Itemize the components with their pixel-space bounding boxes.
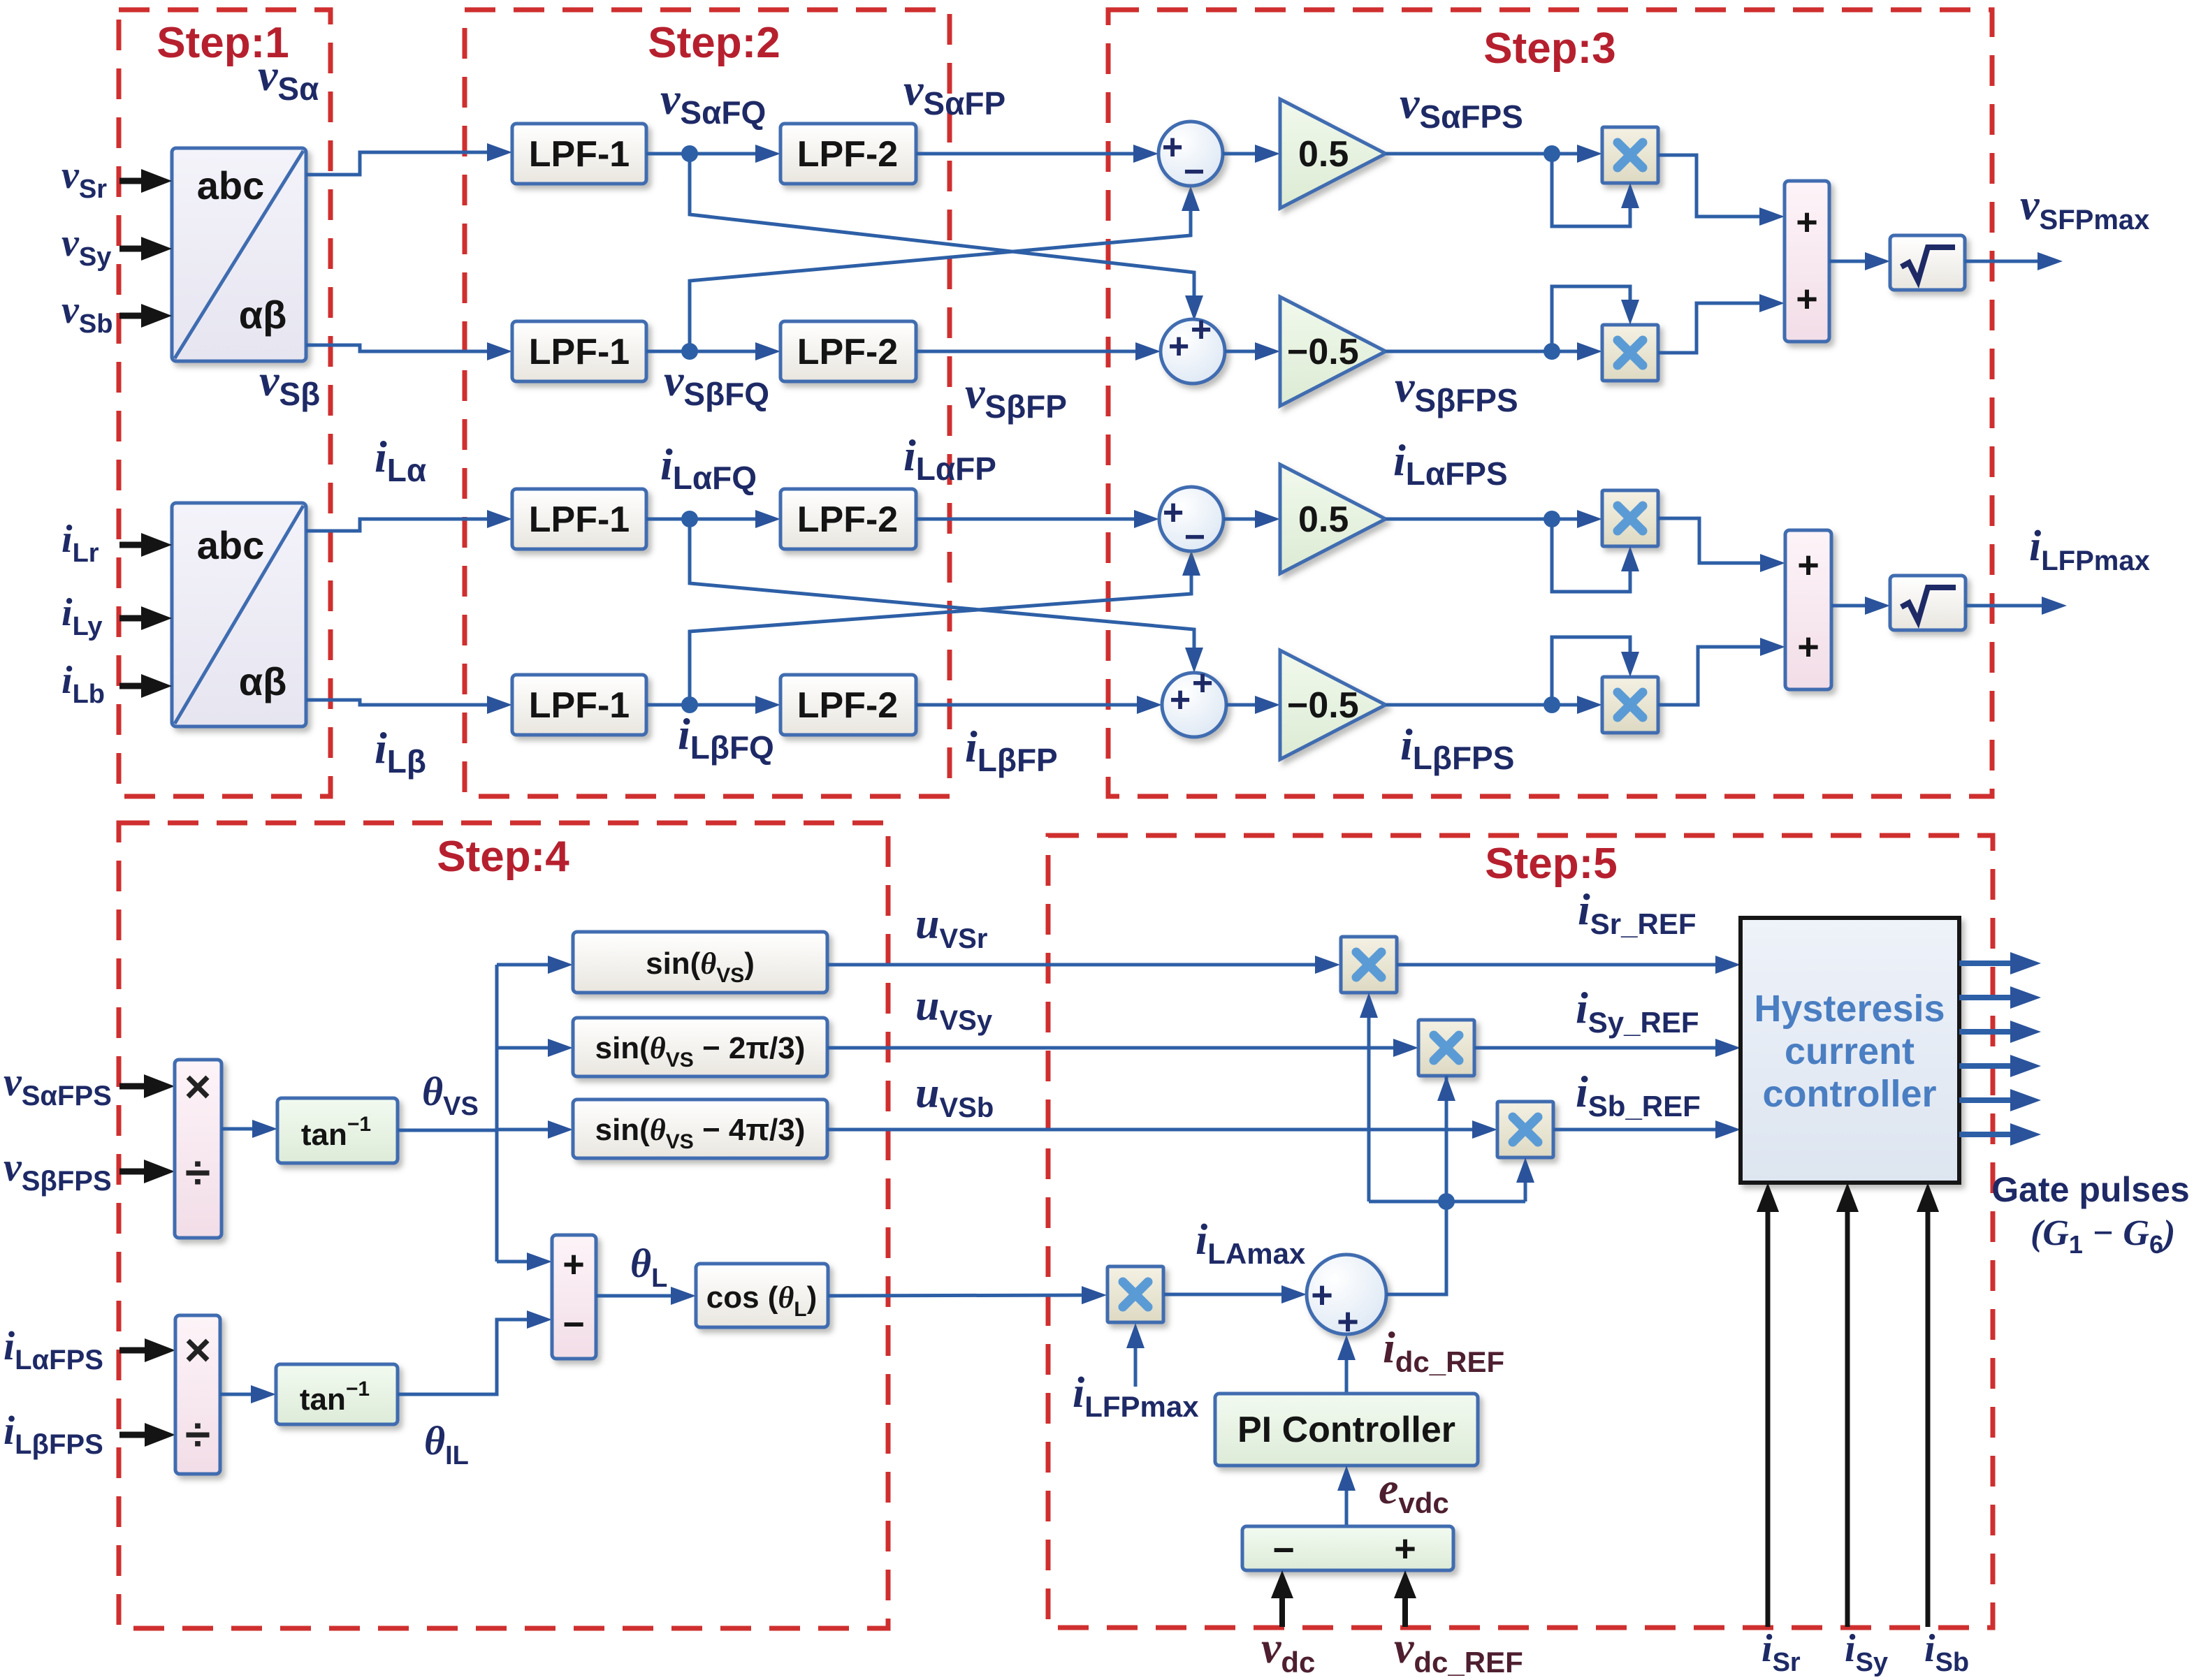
label iLbetaFQ [678, 709, 774, 766]
svg-text:(G1 − G6): (G1 − G6) [2031, 1213, 2175, 1259]
svg-text:iLFPmax: iLFPmax [2029, 523, 2150, 576]
input arrow iLalphaFPS [119, 1338, 175, 1362]
gain triangle &#8722;0.5 (vbeta) [1280, 297, 1386, 406]
summing circle (ibeta) [1162, 663, 1226, 737]
wire gain to multiplier (ibeta) [1386, 696, 1602, 714]
svg-text:LPF-2: LPF-2 [797, 134, 898, 175]
wire LPF-2 to summing circle (ibeta) [916, 696, 1162, 714]
label iLbeta [375, 723, 426, 780]
svg-text:iSy: iSy [1845, 1627, 1888, 1677]
svg-text:LPF-2: LPF-2 [797, 685, 898, 726]
label thetaL [630, 1241, 667, 1293]
label iLAmax [1196, 1216, 1306, 1270]
svg-text:abc: abc [197, 163, 265, 207]
svg-text:+: + [1163, 492, 1184, 533]
wire subtractor to cos [596, 1287, 696, 1305]
label iLalphaFQ [660, 439, 757, 496]
input label vSr [61, 154, 107, 204]
svg-text:iSb_REF: iSb_REF [1576, 1067, 1701, 1123]
arctan block (current) [276, 1364, 398, 1424]
svg-text:vSβFPS: vSβFPS [3, 1144, 112, 1197]
multiplier square (iSb_REF) [1497, 1102, 1553, 1157]
stub arrow iLFPmax into multiplier [1126, 1323, 1145, 1387]
cross wire vSalphaFQ to beta summing circle [690, 154, 1203, 321]
gate pulse output arrow 5 [1959, 1089, 2041, 1111]
label vSFPmax [2020, 182, 2149, 235]
input arrow vSbetaFPS [119, 1160, 175, 1183]
junction dot (ialpha) [681, 511, 698, 527]
svg-text:θIL: θIL [424, 1418, 469, 1470]
dc reference summing circle [1307, 1255, 1386, 1343]
wire multiplier to adder (vbeta) [1658, 294, 1785, 353]
step 1 label [157, 19, 289, 67]
label iSy_REF [1576, 983, 1699, 1039]
block LPF-2 (ialpha) [780, 489, 916, 549]
theta bus vertical wire [495, 965, 499, 1262]
input label vSy [61, 221, 111, 272]
wire iLbeta to LPF-1 [306, 696, 512, 714]
squaring loop wire (ibeta) [1552, 637, 1639, 705]
svg-text:LPF-2: LPF-2 [797, 499, 898, 540]
wire summing circle to gain (ibeta) [1226, 696, 1280, 714]
svg-text:iSr: iSr [1761, 1627, 1801, 1677]
label vSbetaFPS input [3, 1144, 112, 1197]
step 1 dashed boundary box [119, 10, 330, 796]
wire adder to sqrt (current) [1831, 597, 1890, 615]
label iLalphaFPS [1393, 435, 1508, 492]
multiplier square (ibeta) [1602, 677, 1658, 733]
hysteresis current controller block [1741, 918, 1959, 1183]
svg-text:uVSr: uVSr [915, 900, 987, 954]
wire multiplier to adder (ibeta) [1658, 638, 1785, 705]
wire thetaIL to subtractor minus [398, 1310, 552, 1394]
gate pulse output arrow 4 [1959, 1055, 2041, 1077]
feedback line iSb [1917, 1183, 1939, 1627]
squaring loop wire (vbeta) [1552, 286, 1639, 353]
svg-text:−: − [1272, 1529, 1295, 1571]
label iSr [1761, 1627, 1801, 1677]
svg-text:iLαFPS: iLαFPS [1393, 435, 1508, 492]
svg-text:LPF-1: LPF-1 [529, 685, 630, 726]
input arrow vSy [119, 237, 172, 261]
svg-text:iSr_REF: iSr_REF [1578, 884, 1697, 940]
input arrow iLy [119, 606, 172, 630]
svg-text:0.5: 0.5 [1298, 134, 1349, 175]
svg-text:θL: θL [630, 1241, 667, 1293]
adder block (current) [1785, 530, 1831, 689]
svg-text:iLαFP: iLαFP [903, 430, 996, 487]
svg-text:vdc_REF: vdc_REF [1394, 1623, 1523, 1677]
svg-text:current: current [1785, 1030, 1915, 1072]
input arrow iLr [119, 533, 172, 557]
multiplier feed bus [1369, 1200, 1525, 1204]
wire uVSr to multiplier [827, 956, 1340, 974]
label iLbetaFPS [1400, 720, 1514, 776]
junction dot (ibeta) [681, 696, 698, 713]
wire sum circle to multiplier bus [1386, 1076, 1446, 1294]
svg-text:vSαFP: vSαFP [903, 65, 1005, 122]
svg-text:+: + [1796, 278, 1818, 320]
feedback line iSr [1757, 1183, 1779, 1627]
block LPF-2 (ibeta) [780, 675, 916, 735]
svg-text:vSβFP: vSβFP [965, 368, 1067, 425]
svg-text:−: − [1184, 517, 1205, 557]
label vSbetaFQ [664, 356, 769, 412]
svg-text:vSαFPS: vSαFPS [1400, 78, 1523, 135]
input label iLb [61, 659, 105, 709]
label uVSb [915, 1069, 994, 1123]
divide block (voltage) [175, 1060, 221, 1238]
wire uVSb to multiplier [827, 1120, 1497, 1139]
wire multiplier to dc sum circle [1164, 1285, 1307, 1303]
wire summing circle to gain (ialpha) [1223, 510, 1280, 528]
svg-text:iSy_REF: iSy_REF [1576, 983, 1699, 1039]
svg-text:+: + [562, 1243, 585, 1285]
junction dot (valpha) [681, 145, 698, 162]
svg-text:÷: ÷ [185, 1146, 210, 1198]
svg-text:αβ: αβ [239, 659, 287, 703]
label uVSy [915, 982, 993, 1036]
svg-text:+: + [1797, 544, 1819, 586]
wire vSbeta to LPF-1 [306, 342, 512, 360]
wire branch to angle subtractor plus [497, 1252, 552, 1271]
svg-text:+: + [1796, 201, 1818, 243]
cross wire vSbetaFQ to alpha summing circle [690, 186, 1200, 351]
label iLbetaFP [965, 722, 1058, 778]
multiplier square (iSr_REF) [1341, 937, 1397, 993]
wire branch to sin2 [497, 1039, 573, 1057]
wire iLalpha to LPF-1 [306, 510, 512, 531]
wire iSb_REF to hysteresis [1553, 1120, 1741, 1139]
svg-text:LPF-1: LPF-1 [529, 332, 630, 372]
label iSb [1924, 1627, 1969, 1677]
gain triangle 0.5 (ialpha) [1280, 465, 1386, 574]
step 4 label [437, 833, 569, 881]
svg-text:θVS: θVS [422, 1069, 479, 1121]
junction dot after gain (valpha) [1543, 145, 1560, 162]
wire LPF-2 to summing circle (valpha) [916, 145, 1158, 163]
svg-text:Step:4: Step:4 [437, 833, 569, 881]
svg-text:+: + [1394, 1528, 1416, 1570]
svg-text:−: − [1184, 152, 1205, 192]
svg-text:LPF-2: LPF-2 [797, 332, 898, 372]
block sin(thetaVS-4pi/3) [573, 1100, 827, 1158]
svg-text:iLr: iLr [61, 518, 99, 568]
wire LPF-1 to LPF-2 (ialpha) [646, 510, 780, 528]
svg-text:LPF-1: LPF-1 [529, 134, 630, 175]
svg-text:iLβFPS: iLβFPS [3, 1408, 103, 1460]
cross wire iLbetaFQ to alpha summing circle [690, 550, 1200, 705]
wire LPF-1 to LPF-2 (valpha) [646, 145, 780, 163]
divide block (current) [175, 1315, 220, 1474]
svg-text:×: × [184, 1060, 212, 1112]
svg-text:iSb: iSb [1924, 1627, 1969, 1677]
step 5 dashed boundary box [1048, 835, 1993, 1628]
label vSalphaFP [903, 65, 1005, 122]
label iLbetaFPS input [3, 1408, 103, 1460]
adder block (voltage) [1785, 181, 1829, 342]
block abc-to-alphabeta (current) [172, 503, 306, 726]
svg-text:+: + [1337, 1301, 1359, 1343]
svg-text:0.5: 0.5 [1298, 499, 1349, 540]
svg-text:vSb: vSb [61, 288, 112, 339]
svg-text:αβ: αβ [239, 293, 287, 337]
svg-text:Step:5: Step:5 [1485, 840, 1617, 888]
feed wire to iSr multiplier [1360, 993, 1378, 1201]
svg-text:LPF-1: LPF-1 [529, 499, 630, 540]
svg-text:÷: ÷ [185, 1408, 210, 1460]
sqrt block (current) [1890, 576, 1966, 630]
svg-text:+: + [1191, 309, 1212, 350]
svg-text:PI Controller: PI Controller [1237, 1410, 1455, 1450]
svg-text:+: + [1192, 663, 1213, 703]
multiplier square (iLAmax) [1107, 1266, 1163, 1322]
svg-text:+: + [1170, 680, 1191, 720]
label iLFPmax input [1073, 1369, 1199, 1423]
block sin(thetaVS) [573, 932, 827, 993]
wire summing circle to gain (valpha) [1223, 145, 1280, 163]
svg-text:iLβFPS: iLβFPS [1400, 720, 1514, 776]
label idc_REF [1383, 1322, 1504, 1378]
svg-text:−0.5: −0.5 [1287, 332, 1359, 372]
label iLalpha [375, 432, 426, 488]
svg-text:abc: abc [197, 523, 265, 567]
label thetaVS [422, 1069, 479, 1121]
svg-text:−: − [562, 1303, 585, 1345]
feedback line iSy [1836, 1183, 1859, 1627]
svg-text:iLβFP: iLβFP [965, 722, 1058, 778]
label G1-G6 [2031, 1213, 2175, 1259]
input label iLr [61, 518, 99, 568]
wire gain to multiplier (ialpha) [1386, 510, 1602, 528]
wire arctan to theta bus [398, 1129, 497, 1132]
label iLalphaFP [903, 430, 996, 487]
input label vSb [61, 288, 112, 339]
block cos(thetaL) [696, 1264, 828, 1327]
sqrt block (voltage) [1890, 235, 1965, 290]
feed wire to iSb multiplier [1516, 1157, 1534, 1201]
multiplier square (vbeta) [1602, 325, 1658, 381]
label iLalphaFPS input [3, 1323, 103, 1375]
gate pulse output arrow 2 [1959, 986, 2041, 1009]
label thetaIL [424, 1418, 469, 1470]
wire adder to sqrt (voltage) [1829, 252, 1890, 270]
svg-text:Step:3: Step:3 [1483, 24, 1615, 73]
input arrow vdc [1271, 1570, 1293, 1627]
svg-text:+: + [1168, 326, 1189, 367]
step 3 label [1483, 24, 1615, 73]
svg-text:iLAmax: iLAmax [1196, 1216, 1306, 1270]
svg-text:iLαFQ: iLαFQ [660, 439, 757, 496]
svg-text:iLβFQ: iLβFQ [678, 709, 774, 766]
step 2 label [648, 19, 780, 67]
junction dot (vbeta) [681, 343, 698, 360]
svg-text:vSαFQ: vSαFQ [660, 74, 766, 131]
svg-text:vSFPmax: vSFPmax [2020, 182, 2149, 235]
step 3 dashed boundary box [1108, 10, 1992, 796]
wire summing circle to gain (vbeta) [1225, 342, 1280, 360]
svg-text:iLβ: iLβ [375, 723, 426, 780]
svg-text:vSβ: vSβ [259, 356, 320, 412]
input arrow vdc_REF [1394, 1570, 1416, 1627]
block LPF-1 (ialpha) [512, 489, 646, 549]
junction dot after gain (ibeta) [1543, 696, 1560, 713]
wire gain to multiplier (vbeta) [1386, 342, 1602, 360]
arrowhead into iSy multiplier [1437, 1076, 1455, 1132]
gain triangle &#8722;0.5 (ibeta) [1280, 650, 1386, 759]
gain triangle 0.5 (valpha) [1280, 99, 1386, 208]
svg-text:×: × [184, 1324, 212, 1375]
label Gate pulses [1991, 1170, 2189, 1209]
svg-text:iLα: iLα [375, 432, 426, 488]
svg-text:vSαFPS: vSαFPS [3, 1059, 112, 1111]
junction dot after gain (vbeta) [1543, 343, 1560, 360]
wire divide to arctan (voltage) [221, 1120, 277, 1138]
label vdc_REF [1394, 1623, 1523, 1679]
block LPF-2 (vbeta) [780, 321, 916, 381]
vdc error subtractor bar [1242, 1526, 1453, 1571]
svg-text:uVSy: uVSy [915, 982, 993, 1036]
label vSalpha [258, 50, 319, 107]
input arrow vSr [119, 169, 172, 193]
multiplier square (iSy_REF) [1418, 1020, 1474, 1076]
block LPF-1 (ibeta) [512, 675, 646, 735]
label vSalphaFPS input [3, 1059, 112, 1111]
label vSalphaFPS [1400, 78, 1523, 135]
wire PI controller to sum circle [1337, 1335, 1356, 1394]
svg-text:vSr: vSr [61, 154, 107, 204]
label evdc [1379, 1463, 1449, 1519]
input label iLy [61, 591, 103, 641]
multiplier square (valpha) [1602, 127, 1658, 183]
svg-text:−0.5: −0.5 [1287, 685, 1359, 726]
label iSr_REF [1578, 884, 1697, 940]
label vSbetaFPS [1395, 362, 1518, 418]
block abc-to-alphabeta (voltage) [172, 148, 306, 361]
svg-text:Step:2: Step:2 [648, 19, 780, 67]
wire iSr_REF to hysteresis [1397, 956, 1741, 974]
summing circle (valpha) [1158, 122, 1223, 192]
block sin(thetaVS-2pi/3) [573, 1018, 827, 1076]
arctan block (voltage) [277, 1098, 398, 1163]
svg-text:uVSb: uVSb [915, 1069, 994, 1123]
wire gain to multiplier (valpha) [1386, 145, 1602, 163]
wire cos to multiplier [828, 1286, 1107, 1304]
wire multiplier to adder (ialpha) [1658, 518, 1785, 572]
block LPF-1 (valpha) [512, 124, 646, 184]
label iLFPmax output [2029, 523, 2150, 576]
svg-text:+: + [1162, 127, 1183, 168]
wire branch to sin3 [497, 1120, 573, 1139]
junction dot on feed bus [1438, 1193, 1455, 1210]
step 5 label [1485, 840, 1617, 888]
label vdc [1261, 1623, 1315, 1679]
label vSalphaFQ [660, 74, 766, 131]
label iSb_REF [1576, 1067, 1701, 1123]
squaring loop wire (valpha) [1552, 154, 1639, 226]
label vSbetaFP [965, 368, 1067, 425]
wire LPF-1 to LPF-2 (vbeta) [646, 342, 780, 360]
svg-text:iLy: iLy [61, 591, 103, 641]
input arrow vSalphaFPS [119, 1074, 175, 1098]
svg-text:vSy: vSy [61, 221, 111, 272]
wire LPF-2 to summing circle (ialpha) [916, 510, 1159, 528]
angle subtractor block [552, 1235, 596, 1359]
input arrow iLb [119, 674, 172, 698]
svg-text:Hysteresis: Hysteresis [1754, 988, 1945, 1030]
wire LPF-2 to summing circle (vbeta) [916, 342, 1161, 360]
svg-text:iLb: iLb [61, 659, 105, 709]
wire vSalpha to LPF-1 [306, 143, 512, 175]
label vSbeta [259, 356, 320, 412]
wire uVSy to multiplier [827, 1039, 1418, 1057]
svg-text:evdc: evdc [1379, 1463, 1449, 1519]
wire LPF-1 to LPF-2 (ibeta) [646, 696, 780, 714]
gate pulse output arrow 1 [1959, 952, 2041, 974]
block LPF-1 (vbeta) [512, 321, 646, 381]
PI controller block [1215, 1394, 1478, 1466]
wire branch to sin1 [497, 956, 573, 974]
svg-text:controller: controller [1762, 1073, 1936, 1115]
wire iSy_REF to hysteresis [1474, 1039, 1741, 1057]
junction dot after gain (ialpha) [1543, 511, 1560, 527]
svg-text:vSβFQ: vSβFQ [664, 356, 769, 412]
wire error to PI controller [1337, 1466, 1356, 1526]
gate pulse output arrow 6 [1959, 1123, 2041, 1146]
squaring loop wire (ialpha) [1552, 519, 1639, 592]
block LPF-2 (valpha) [780, 124, 916, 184]
input arrow iLbetaFPS [119, 1423, 175, 1447]
svg-text:+: + [1311, 1274, 1333, 1316]
output arrow vSFPmax [1965, 252, 2063, 270]
input arrow vSb [119, 304, 172, 328]
step 4 dashed boundary box [119, 823, 888, 1628]
svg-text:iLαFPS: iLαFPS [3, 1323, 103, 1375]
label iSy [1845, 1627, 1888, 1677]
svg-text:Gate pulses: Gate pulses [1991, 1170, 2189, 1209]
label uVSr [915, 900, 987, 954]
step 2 dashed boundary box [465, 10, 950, 796]
multiplier square (ialpha) [1602, 490, 1658, 546]
summing circle (ialpha) [1159, 487, 1223, 557]
wire multiplier to adder (valpha) [1658, 155, 1785, 226]
summing circle (vbeta) [1161, 309, 1225, 384]
svg-text:idc_REF: idc_REF [1383, 1322, 1504, 1378]
svg-text:vSβFPS: vSβFPS [1395, 362, 1518, 418]
output arrow iLFPmax [1966, 597, 2067, 615]
gate pulse output arrow 3 [1959, 1021, 2041, 1043]
wire divide to arctan (current) [220, 1385, 276, 1403]
cross wire iLalphaFQ to beta summing circle [690, 519, 1203, 673]
svg-text:vdc: vdc [1261, 1623, 1315, 1677]
svg-text:+: + [1797, 626, 1819, 668]
